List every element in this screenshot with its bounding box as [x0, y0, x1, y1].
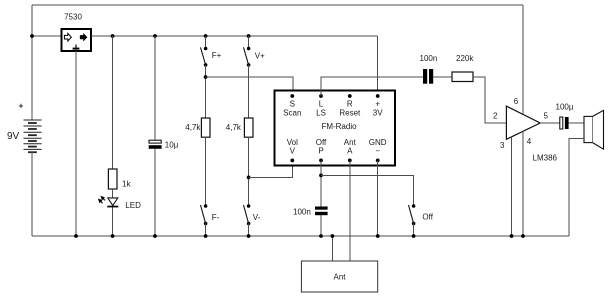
7530 input hollow arrow	[64, 33, 71, 41]
node junction GND pin on bottom rail	[376, 234, 380, 238]
resistor R2 4,7k	[244, 118, 253, 137]
wire left rail battery + side	[31, 5, 33, 120]
capacitor C3 100n coupling	[423, 69, 433, 84]
svg-text:6: 6	[514, 97, 519, 106]
pin S Scan	[283, 94, 301, 117]
resistor R4 220k	[452, 72, 473, 82]
node junction pin3 on bottom rail	[510, 234, 514, 238]
node junction F- on bottom rail	[204, 234, 208, 238]
svg-text:Scan: Scan	[283, 108, 301, 117]
pin + 3V	[373, 94, 383, 117]
wire 1k to LED	[112, 189, 114, 198]
wire pin6 to 9V top rail	[522, 5, 524, 114]
wire antenna ground to bottom rail	[331, 236, 333, 261]
svg-text:Off: Off	[422, 213, 433, 222]
svg-text:4,7k: 4,7k	[226, 123, 242, 132]
wire speaker return to bottom rail	[569, 138, 584, 236]
LED D1	[107, 198, 118, 208]
node junction V- on bottom rail	[247, 234, 251, 238]
svg-text:LS: LS	[316, 108, 326, 117]
node junction 100n on bottom rail	[319, 234, 323, 238]
battery BT1 9V	[24, 120, 42, 152]
node junction F+ branch on 3V rail	[204, 34, 208, 38]
wire 4.7k to volume node	[248, 137, 250, 206]
svg-text:FM-Radio: FM-Radio	[321, 122, 357, 131]
switch S1 F+	[201, 47, 208, 67]
svg-text:S: S	[290, 99, 295, 108]
node junction pin4 on bottom rail	[521, 234, 525, 238]
LED light emission arrows	[99, 197, 105, 204]
svg-text:5: 5	[544, 112, 549, 121]
node junction antenna ground on bottom rail	[331, 234, 335, 238]
wire off node to switch Off	[321, 175, 414, 206]
wire V- to bottom rail	[248, 224, 250, 237]
wire bottom ground rail	[32, 235, 569, 237]
antenna box Ant	[301, 261, 377, 292]
svg-text:V+: V+	[255, 51, 265, 60]
svg-text:F-: F-	[212, 213, 220, 222]
wire LED cathode to bottom rail	[112, 207, 114, 236]
node junction Off switch on bottom rail	[412, 234, 416, 238]
wire Off switch to bottom rail	[413, 224, 415, 237]
wire Vol pin to volume node	[249, 160, 293, 177]
svg-text:R: R	[347, 99, 353, 108]
capacitor C2 100n decoupling	[315, 207, 328, 216]
svg-text:1k: 1k	[122, 180, 131, 189]
switch S4 V-	[244, 204, 251, 225]
pin Ant A	[344, 138, 357, 162]
svg-text:3V: 3V	[373, 108, 383, 117]
wire 7530 ground pin to bottom rail	[75, 51, 77, 236]
wire 100n to bottom rail	[320, 215, 322, 236]
wire 100n to 220k	[433, 76, 452, 78]
svg-text:LM386: LM386	[533, 154, 558, 163]
svg-text:2: 2	[493, 111, 498, 120]
svg-text:A: A	[347, 147, 353, 156]
svg-text:+: +	[375, 99, 380, 108]
svg-text:−: −	[375, 147, 380, 156]
node junction 10u on bottom rail	[153, 234, 157, 238]
pin Vol V	[287, 138, 298, 162]
svg-text:Reset: Reset	[339, 108, 361, 117]
pin L LS	[316, 94, 326, 117]
capacitor C4 100u polarized	[560, 117, 569, 129]
svg-text:F+: F+	[212, 51, 222, 60]
svg-text:3: 3	[500, 141, 505, 150]
switch S2 V+	[244, 47, 251, 67]
wire 3V drop to IC + pin	[377, 36, 379, 96]
speaker LS1	[584, 110, 604, 149]
node junction LED branch on 3V rail	[111, 34, 115, 38]
svg-text:7530: 7530	[64, 12, 82, 21]
svg-text:+: +	[19, 102, 24, 111]
wire pin5 output to 100u	[540, 122, 560, 124]
svg-text:4,7k: 4,7k	[185, 123, 201, 132]
node junction V+ branch on 3V rail	[247, 34, 251, 38]
node junction LED on bottom rail	[111, 234, 115, 238]
wire 100u to speaker	[569, 122, 584, 124]
svg-text:220k: 220k	[456, 54, 474, 63]
wire 3V rail to 10u cap	[154, 36, 156, 140]
wire 3V rail to switch V+	[248, 36, 250, 49]
node junction scan wire / F+ / 4.7k	[204, 75, 208, 79]
svg-text:V: V	[290, 147, 296, 156]
wire F+ to scan node	[205, 65, 207, 118]
wire 7530 input	[32, 35, 62, 37]
7530 output filled arrow	[80, 33, 87, 41]
wire pin4 to bottom rail	[522, 131, 524, 236]
wire L pin to coupling cap	[321, 77, 423, 96]
pin R Reset	[339, 94, 361, 117]
svg-text:LED: LED	[125, 201, 141, 210]
voltage regulator U2 7530 box	[62, 29, 92, 51]
wire 10u cap to bottom rail	[154, 149, 156, 236]
wire GND pin to bottom rail	[377, 160, 379, 236]
wire V+ to 4.7k	[248, 65, 250, 118]
resistor R1 4,7k	[201, 118, 210, 137]
wire pin3 to bottom rail	[511, 137, 513, 236]
pin Off P	[316, 138, 327, 162]
svg-text:P: P	[318, 147, 323, 156]
svg-text:10µ: 10µ	[165, 140, 179, 149]
svg-text:100n: 100n	[420, 54, 438, 63]
7530 internal ground symbol	[73, 45, 80, 50]
wire 3V rail to switch F+	[205, 36, 207, 49]
node junction Off pin / off switch wire	[319, 174, 323, 178]
wire 220k to LM386 pin2	[473, 77, 506, 123]
pin GND -	[369, 138, 387, 162]
wire battery - to bottom rail	[31, 152, 33, 236]
svg-text:L: L	[319, 99, 324, 108]
wire 3V output rail from 7530	[91, 35, 378, 37]
svg-text:9V: 9V	[7, 131, 20, 142]
wire 3V rail to 1k resistor	[112, 36, 114, 169]
node junction 7530 gnd on bottom rail	[74, 234, 78, 238]
wire scan node to S pin	[206, 77, 293, 96]
wire Ant pin to antenna box	[349, 160, 351, 261]
resistor R3 1k	[108, 169, 117, 189]
svg-text:4: 4	[527, 137, 532, 146]
wire F- to bottom rail	[205, 224, 207, 237]
svg-text:V-: V-	[253, 213, 261, 222]
wire 4.7k to switch F-	[205, 137, 207, 206]
node junction 10u branch on 3V rail	[153, 34, 157, 38]
svg-text:100n: 100n	[293, 207, 311, 216]
capacitor C1 10u polarized	[149, 140, 162, 149]
wire top rail 9V from battery+ to LM386 pin6	[32, 4, 523, 6]
op-amp U3 LM386 triangle	[506, 106, 540, 139]
wire Off pin down through 100n to bottom rail	[320, 160, 322, 206]
switch S3 F-	[201, 204, 208, 225]
svg-text:Ant: Ant	[333, 272, 346, 281]
node junction battery/top-rail/7530-input	[30, 34, 34, 38]
switch S5 Off	[409, 204, 416, 225]
IC U1 FM-Radio box	[275, 91, 396, 166]
svg-text:100µ: 100µ	[556, 102, 574, 111]
node junction volume wire / V-	[247, 176, 251, 180]
